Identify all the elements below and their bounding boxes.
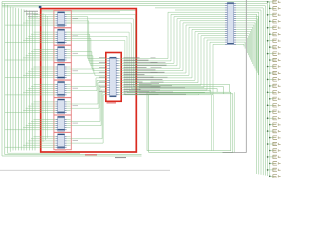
- text label red below U9: [107, 102, 117, 104]
- wire U2 left pins to bus: [5, 32, 56, 43]
- wire inner top lines: [42, 10, 136, 12]
- op-amp/IC U4 in pink box: [54, 63, 71, 80]
- label text top-left: [24, 11, 38, 17]
- pin symbol row 27: [267, 169, 269, 171]
- pin symbol row 14: [269, 85, 271, 87]
- wire label rows to sheet: [125, 84, 230, 95]
- wire label verticals: [211, 95, 213, 151]
- op-amp/IC U1 in pink box: [54, 10, 71, 27]
- pin symbol row 24: [269, 150, 271, 152]
- pin symbol row 10: [269, 59, 271, 61]
- pin symbol row 9: [267, 53, 269, 55]
- wire left vertical bus (13 lines): [2, 2, 35, 156]
- op-amp/IC U8 in pink box: [54, 133, 71, 150]
- wire U5 left pins to bus: [5, 84, 56, 95]
- op-amp/IC U5 in pink box: [54, 80, 71, 97]
- net labels on bus: [124, 58, 168, 94]
- op-amp/IC U6 in pink box: [54, 98, 71, 115]
- pin symbol row 23: [267, 143, 269, 145]
- text label black bottom: [115, 157, 126, 159]
- highlight box (middle red rectangle): [106, 53, 121, 102]
- designator text U7: [73, 122, 79, 124]
- wire U8 left pins to bus: [5, 137, 56, 147]
- frame faint bottom: [0, 169, 170, 171]
- pin symbol row 18: [269, 111, 271, 113]
- sheet pin (blue mark at rect corner): [39, 6, 42, 8]
- designator text U4: [73, 70, 79, 72]
- right edge pin column: [267, 0, 281, 178]
- designator text U8: [73, 140, 79, 142]
- pin symbol row 2: [269, 8, 271, 10]
- pin symbol row 4: [269, 21, 271, 23]
- pin symbol row 12: [269, 72, 271, 74]
- text label red bottom: [55, 151, 97, 154]
- op-amp/IC U3 in pink box: [54, 45, 71, 62]
- pin symbol row 17: [267, 105, 269, 107]
- pin symbol row 13: [267, 79, 269, 81]
- pin symbol row 3: [267, 14, 269, 16]
- pin symbol row 16: [269, 98, 271, 100]
- pin symbol row 8: [269, 46, 271, 48]
- wire bus U9 to connector J1: [119, 12, 225, 95]
- designator text U1: [73, 17, 79, 19]
- pin symbol row 5: [267, 27, 269, 29]
- pin symbol row 15: [267, 92, 269, 94]
- designator text U6: [73, 105, 79, 107]
- wire U7 left pins to bus: [5, 119, 56, 130]
- sheet outline (green rect): [147, 92, 235, 152]
- op-amp/IC U2 in pink box: [54, 28, 71, 45]
- pin symbol row 20: [269, 124, 271, 126]
- pin symbol row 26: [269, 163, 271, 165]
- designator text U2: [73, 35, 79, 37]
- pin symbol row 1: [267, 1, 269, 3]
- wire U4 left pins to bus: [5, 67, 56, 78]
- pin symbol row 19: [267, 117, 269, 119]
- pin symbol row 25: [267, 156, 269, 158]
- designator text U3: [73, 52, 79, 54]
- designator text U5: [73, 87, 79, 89]
- frame line horizontal: [223, 152, 247, 154]
- wire U3 left pins to bus: [5, 50, 56, 61]
- wire connector right fan: [236, 4, 270, 177]
- wire top bus: [2, 2, 269, 10]
- connector J1: [225, 3, 236, 45]
- highlight box (outer red rectangle): [41, 9, 137, 152]
- wire stubs: [67, 15, 71, 146]
- pin symbol row 11: [267, 66, 269, 68]
- op-amp/IC U7 in pink box: [54, 115, 71, 132]
- pin symbol row 21: [267, 130, 269, 132]
- pin symbol row 6: [269, 33, 271, 35]
- pin numbers U9: [99, 58, 105, 92]
- pin symbol row 28: [269, 176, 271, 178]
- pin symbol row 22: [269, 137, 271, 139]
- frame line vertical: [245, 0, 247, 153]
- wire bottom bus: [2, 153, 142, 156]
- wire inner left verticals: [43, 13, 48, 142]
- wire inner right verticals: [67, 15, 136, 95]
- wire U6 left pins to bus: [5, 102, 56, 113]
- wire U1 left pins to bus: [5, 15, 56, 26]
- wire fan small ICs to U9: [67, 17, 108, 143]
- pin symbol row 7: [267, 40, 269, 42]
- IC U9 (middle, many pins): [107, 57, 119, 97]
